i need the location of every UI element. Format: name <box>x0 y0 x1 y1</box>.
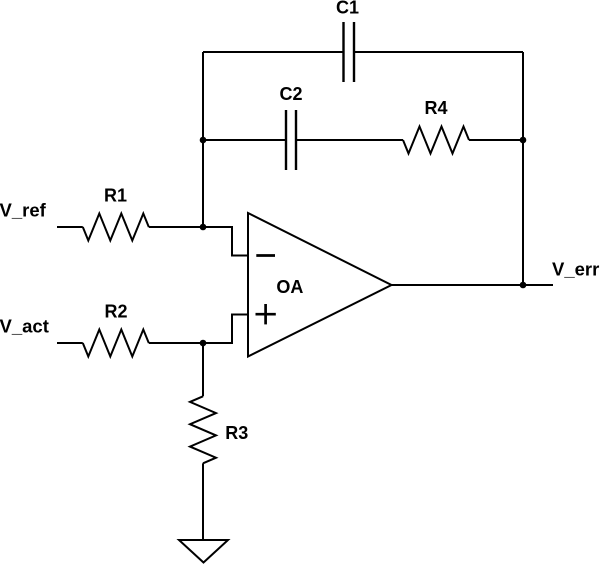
svg-text:V_ref: V_ref <box>0 199 47 220</box>
wire output to V_err <box>392 284 554 286</box>
resistor R2 <box>83 330 149 357</box>
wire top-right horizontal (C1 right plate to right rail) <box>354 51 523 53</box>
svg-text:OA: OA <box>276 277 303 297</box>
resistor R4 <box>403 127 469 154</box>
svg-text:V_err: V_err <box>552 259 599 280</box>
svg-text:R2: R2 <box>104 302 127 322</box>
ground <box>179 540 228 563</box>
svg-text:R1: R1 <box>104 186 127 206</box>
junction node R4 right <box>520 137 527 144</box>
junction node non-inverting <box>200 340 207 347</box>
wire left vertical (feedback down to inverting node) <box>202 52 204 227</box>
wire top-left horizontal (top feedback to C1 left plate) <box>203 51 344 53</box>
svg-text:V_act: V_act <box>0 316 49 337</box>
svg-text:R3: R3 <box>225 423 248 443</box>
wire R2 to non-inverting step <box>149 315 248 344</box>
capacitor C1 <box>344 22 355 82</box>
wire R4 to right rail <box>469 139 523 141</box>
junction node C2 left <box>200 137 207 144</box>
wire node to R3 <box>202 343 204 396</box>
svg-text:C1: C1 <box>336 0 359 18</box>
op-amp plus input sign <box>256 304 276 324</box>
resistor R1 <box>83 214 149 241</box>
wire right vertical rail <box>522 52 524 285</box>
capacitor C2 <box>286 110 296 170</box>
junction node output <box>520 282 527 289</box>
svg-text:R4: R4 <box>424 98 447 118</box>
resistor R3 <box>190 396 216 463</box>
wire V_ref input <box>57 226 83 228</box>
junction node inverting <box>200 224 207 231</box>
svg-text:C2: C2 <box>279 84 302 104</box>
op-amp minus input sign <box>256 254 275 257</box>
wire V_act input <box>57 342 83 344</box>
op-amp U1 (OA) triangle <box>248 213 392 357</box>
wire R1 to inverting step <box>149 227 248 256</box>
wire R3 to ground <box>202 463 204 540</box>
wire row2 left (node to C2 left plate) <box>203 139 286 141</box>
wire C2 right plate to R4 <box>296 139 403 141</box>
